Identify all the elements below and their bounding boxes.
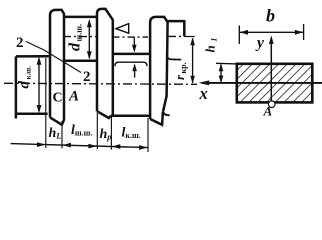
point A marker circle on section bottom (268, 101, 275, 108)
section rectangle (web cross-section b x h1) (237, 64, 312, 103)
b dimension line with end ticks (238, 26, 240, 45)
section line 2-2 through left web (26, 42, 81, 73)
svg-text:A: A (68, 89, 79, 105)
crank pin (d ш.ш.) top edge (64, 16, 97, 19)
svg-text:x: x (199, 84, 208, 103)
extension line journal2 right (147, 118, 149, 152)
bottom dimension line (11, 144, 149, 148)
arrowhead l к.ш. left (pointing left) (112, 144, 120, 149)
svg-text:2: 2 (83, 69, 91, 85)
dimension d ш.ш. (crank pin diameter) (88, 21, 90, 58)
svg-text:A: A (263, 104, 273, 119)
left web (cheek) outline (50, 10, 64, 125)
arrowhead into h_L left (pointing right) (37, 142, 45, 147)
main crankshaft axis (dash-dot centerline) (4, 83, 197, 84)
dimension d к.ш. (left journal diameter) (38, 59, 40, 111)
extension line web1 right (61, 121, 63, 148)
next crank pin stub (cut off) (168, 21, 185, 36)
extension line web2 right (110, 117, 112, 150)
crank pin axis (dash-dot) middle bay (113, 36, 149, 38)
middle main journal bottom edge (111, 114, 150, 117)
arrowhead l ш.ш. right (pointing right) (88, 144, 96, 149)
crank pin axis (dash-dot) left bay (63, 36, 96, 38)
extension line web1 left (45, 58, 47, 148)
h1 dimension (half-height of section) (216, 62, 237, 65)
delta dimension arrows (133, 37, 135, 45)
arrowhead l ш.ш. left (pointing left) (63, 143, 71, 148)
extension line pin right / web2 left (96, 113, 98, 149)
svg-text:2: 2 (16, 35, 24, 51)
svg-text:y: y (255, 35, 264, 52)
pin fillet line over middle journal (115, 62, 147, 66)
third web outline (150, 17, 168, 125)
dimension r кр. (crank radius) (192, 39, 194, 83)
crank pin axis (dash-dot) right bay + solid extension (168, 35, 184, 37)
third web bottom-right fillet to journal bottom stub (163, 111, 170, 115)
delta (overlap) symbol: open triangle (116, 24, 129, 34)
svg-text:b: b (266, 6, 275, 26)
x axis arrowhead (pointing left) (199, 80, 210, 85)
right web (cheek) outline (97, 9, 113, 118)
svg-text:C: C (53, 91, 63, 106)
crank pin bottom edge (64, 60, 97, 63)
left main journal (d к.ш.) (16, 56, 49, 118)
middle main journal top edge (113, 53, 150, 56)
arrowhead l к.ш. right (pointing right) (139, 145, 147, 150)
x axis line into section view (202, 82, 322, 84)
y axis with arrow (270, 38, 272, 102)
right main journal top edge with fillet (167, 55, 181, 60)
